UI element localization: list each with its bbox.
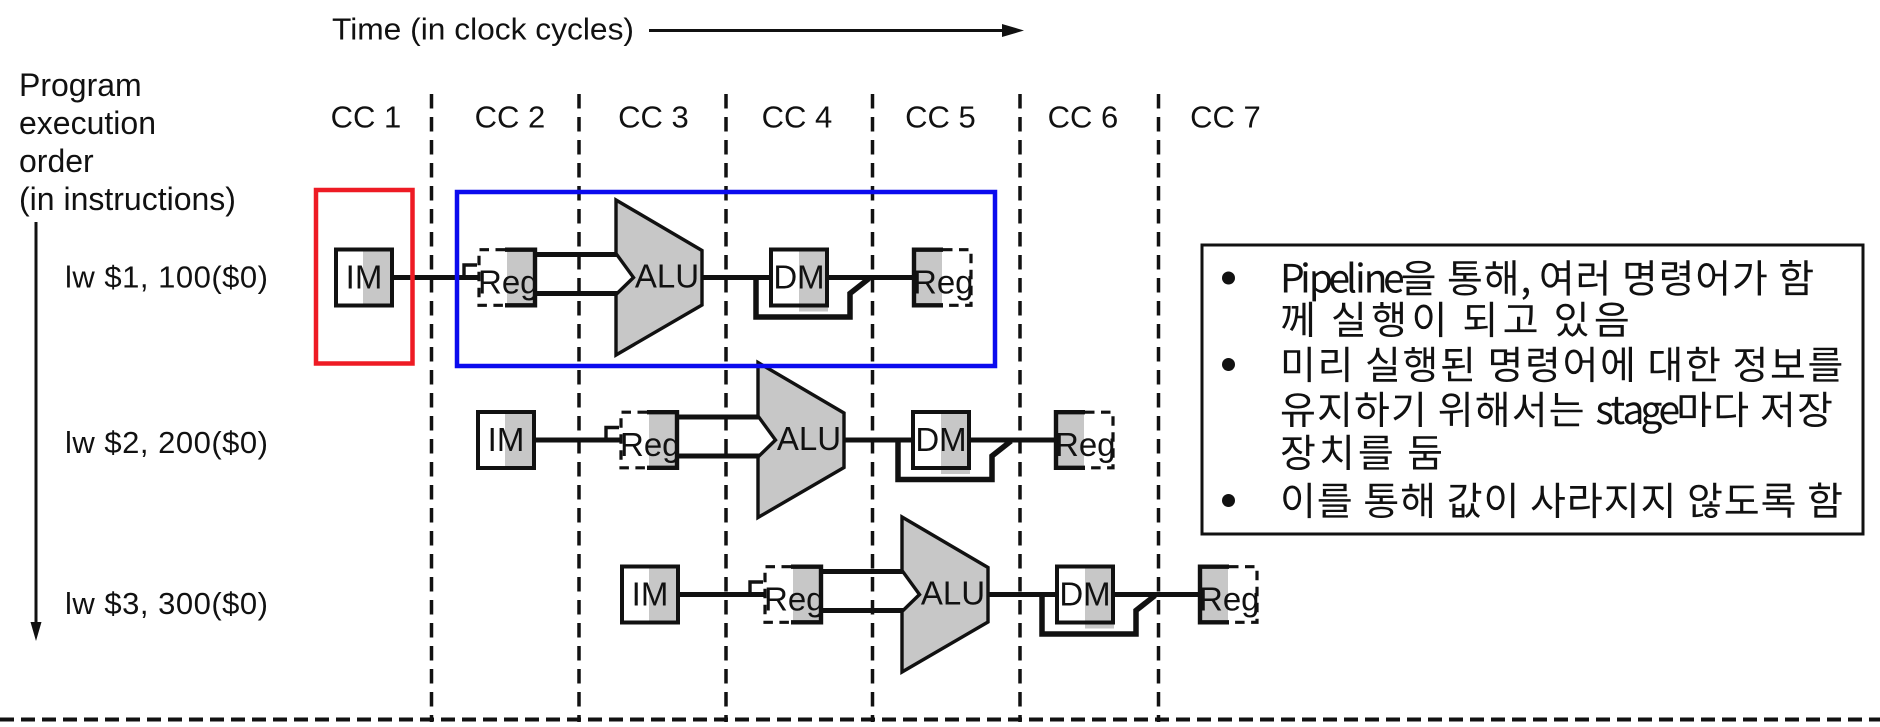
svg-text:CC 4: CC 4 bbox=[762, 100, 833, 135]
svg-text:Reg: Reg bbox=[478, 264, 539, 301]
svg-text:Program: Program bbox=[19, 67, 142, 103]
svg-text:execution: execution bbox=[19, 105, 156, 141]
wire DM to write Reg row3 bbox=[1113, 592, 1200, 597]
label: CC 7 bbox=[1190, 100, 1261, 135]
label: Time (in clock cycles) bbox=[332, 12, 634, 47]
svg-text:CC 2: CC 2 bbox=[475, 100, 546, 135]
DM box (data memory) row2 bbox=[913, 412, 970, 474]
wire IM to Reg row1 bbox=[392, 275, 478, 280]
Reg write box row3 (left half used/shaded, right half dashed) bbox=[1198, 565, 1260, 625]
dashed clock boundary line CC4/CC5 bbox=[871, 94, 875, 722]
label: CC 4 bbox=[762, 100, 833, 135]
label: CC 5 bbox=[905, 100, 976, 135]
svg-text:Reg: Reg bbox=[1055, 426, 1116, 463]
wire IM to Reg row3 bbox=[678, 592, 764, 597]
svg-text:Time (in clock cycles): Time (in clock cycles) bbox=[332, 12, 634, 47]
time axis arrow bbox=[649, 24, 1024, 37]
wires Reg to ALU row3 bbox=[821, 572, 904, 611]
ALU row1 bbox=[616, 200, 702, 355]
dashed clock boundary line CC1/CC2 bbox=[430, 94, 434, 722]
Korean text line 4: 유지하기 위해서는 stage마다 저장 bbox=[1282, 392, 1832, 434]
svg-text:IM: IM bbox=[632, 576, 669, 613]
svg-text:lw $2, 200($0): lw $2, 200($0) bbox=[65, 425, 268, 460]
Reg write box row2 (left half used/shaded, right half dashed) bbox=[1054, 410, 1116, 470]
red highlight rectangle around IM of lw $1 bbox=[316, 190, 413, 364]
dashed clock boundary line CC5/CC6 bbox=[1018, 94, 1022, 722]
wire ALU to DM row1 bbox=[702, 275, 771, 280]
Reg read box row1 (right half used/shaded, left half dashed) bbox=[478, 248, 539, 308]
ALU row2 bbox=[758, 363, 844, 518]
Reg read box row3 (right half used/shaded, left half dashed) bbox=[764, 565, 825, 625]
label: CC 3 bbox=[618, 100, 689, 135]
bullet point 2 bbox=[1222, 358, 1235, 371]
svg-text:(in instructions): (in instructions) bbox=[19, 181, 236, 217]
IM box (instruction memory) row3 bbox=[622, 565, 678, 625]
IM box (instruction memory) row2 bbox=[478, 410, 534, 470]
svg-text:ALU: ALU bbox=[635, 258, 699, 295]
hook (write-port step) at Reg row1 bbox=[464, 265, 477, 278]
svg-text:DM: DM bbox=[773, 259, 824, 296]
svg-text:CC 5: CC 5 bbox=[905, 100, 976, 135]
annotation box (Korean bullet notes) bbox=[1202, 245, 1863, 534]
svg-text:Reg: Reg bbox=[620, 426, 681, 463]
bullet point 3 bbox=[1222, 494, 1235, 507]
Korean text line 6: 이를 통해 값이 사라지지 않도록 함 bbox=[1283, 483, 1841, 519]
svg-text:ALU: ALU bbox=[921, 575, 985, 612]
bypass wire looping under DM row3 bbox=[1042, 595, 1155, 635]
svg-text:lw $1, 100($0): lw $1, 100($0) bbox=[65, 260, 268, 295]
bypass wire looping under DM row1 bbox=[756, 278, 869, 318]
dashed clock boundary line CC2/CC3 bbox=[577, 94, 581, 722]
DM box (data memory) row1 bbox=[771, 250, 828, 312]
svg-text:ALU: ALU bbox=[777, 420, 841, 457]
dashed clock boundary line CC6/CC7 bbox=[1157, 94, 1161, 722]
bullet point 1 bbox=[1222, 272, 1235, 285]
Korean text line 3: 미리 실행된 명령어에 대한 정보를 bbox=[1284, 347, 1841, 383]
DM box (data memory) row3 bbox=[1057, 567, 1114, 629]
Korean text line 1: Pipeline을 통해, 여러 명령어가 함 bbox=[1284, 260, 1813, 301]
svg-text:CC 7: CC 7 bbox=[1190, 100, 1261, 135]
label: Program execution order (in instructions) bbox=[19, 67, 236, 217]
svg-text:Reg: Reg bbox=[764, 581, 825, 618]
wire DM to write Reg row2 bbox=[969, 438, 1056, 443]
label: CC 2 bbox=[475, 100, 546, 135]
wires Reg to ALU row2 bbox=[677, 417, 760, 456]
Reg read box row2 (right half used/shaded, left half dashed) bbox=[620, 410, 681, 470]
blue highlight rectangle around CC2-CC5 stages of lw $1 bbox=[457, 192, 995, 366]
svg-text:CC 1: CC 1 bbox=[331, 100, 402, 135]
hook (write-port step) at Reg row3 bbox=[750, 582, 763, 595]
label: CC 6 bbox=[1048, 100, 1119, 135]
dashed clock boundary line CC3/CC4 bbox=[724, 94, 728, 722]
wire ALU to DM row2 bbox=[844, 438, 913, 443]
wire ALU to DM row3 bbox=[988, 592, 1057, 597]
Korean text line 2: 께 실행이 되고 있음 bbox=[1282, 302, 1628, 337]
svg-text:IM: IM bbox=[346, 259, 383, 296]
svg-text:Reg: Reg bbox=[913, 264, 974, 301]
svg-text:DM: DM bbox=[1059, 576, 1110, 613]
label: lw $3, 300($0) bbox=[65, 586, 268, 621]
Korean text line 5: 장치를 둠 bbox=[1282, 435, 1441, 470]
svg-text:CC 6: CC 6 bbox=[1048, 100, 1119, 135]
svg-text:CC 3: CC 3 bbox=[618, 100, 689, 135]
bottom horizontal dashed line bbox=[0, 718, 1880, 722]
label: CC 1 bbox=[331, 100, 402, 135]
hook (write-port step) at Reg row2 bbox=[606, 428, 619, 441]
program order down arrow bbox=[31, 222, 42, 641]
wire IM to Reg row2 bbox=[534, 438, 620, 443]
svg-text:DM: DM bbox=[915, 421, 966, 458]
wire DM to write Reg row1 bbox=[827, 275, 914, 280]
svg-text:Reg: Reg bbox=[1199, 581, 1260, 618]
wires Reg to ALU row1 bbox=[535, 255, 618, 294]
bypass wire looping under DM row2 bbox=[898, 440, 1011, 480]
label: lw $1, 100($0) bbox=[65, 260, 268, 295]
svg-text:IM: IM bbox=[488, 421, 525, 458]
svg-text:order: order bbox=[19, 143, 94, 179]
label: lw $2, 200($0) bbox=[65, 425, 268, 460]
Reg write box row1 (left half used/shaded, right half dashed) bbox=[912, 248, 974, 308]
IM box (instruction memory) row1 bbox=[336, 248, 392, 308]
ALU row3 bbox=[902, 517, 988, 672]
svg-text:lw $3, 300($0): lw $3, 300($0) bbox=[65, 586, 268, 621]
